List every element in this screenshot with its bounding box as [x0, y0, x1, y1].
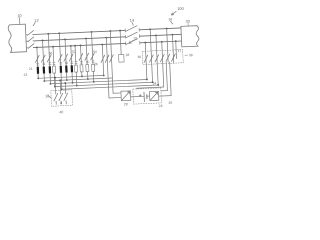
svg-text:36: 36	[137, 55, 141, 59]
fuse block outline 8	[75, 65, 78, 72]
junction dot harness feeder 6	[66, 79, 68, 81]
label 38	[189, 53, 193, 57]
motor feed wire 1	[54, 78, 57, 94]
junction dot harness feeder 3	[50, 83, 52, 85]
label 54	[93, 50, 97, 54]
auxiliary drop 176	[175, 40, 177, 42]
fuse block filled 3	[49, 66, 52, 73]
harness wire 2	[44, 78, 112, 81]
disconnect blade 12 pole 2	[26, 40, 28, 42]
label 10	[17, 13, 22, 18]
junction dot motor box	[60, 102, 62, 104]
converter feed dot 2	[105, 37, 107, 39]
stub to harness feeder 11	[92, 71, 94, 81]
motor contactor blade 3	[65, 92, 67, 94]
charger contact blade 6	[171, 54, 175, 61]
contactor blade feeder 11	[90, 53, 94, 60]
converter feed dot 1	[101, 44, 103, 46]
feeder drop wire 11	[92, 32, 93, 64]
label 12	[34, 18, 39, 23]
fuse block filled 6	[65, 66, 68, 73]
dc-dc arrow 22	[150, 92, 158, 100]
junction dot harness feeder 8	[76, 85, 78, 87]
svg-text:20: 20	[124, 102, 128, 106]
svg-text:100: 100	[177, 6, 185, 11]
transformer box 30	[181, 26, 199, 47]
motor feed dot 2	[59, 79, 61, 81]
stub to harness feeder 8	[75, 72, 78, 85]
leader line for label 16	[171, 21, 173, 24]
battery plate short	[146, 95, 148, 99]
switch 14 blade pole 3	[125, 42, 127, 45]
contactor blade feeder 2	[41, 55, 45, 62]
feeder drop wire 2	[43, 40, 44, 66]
motor feed dot 1	[54, 77, 56, 79]
label 20	[124, 102, 128, 106]
motor contactor blade 2	[60, 92, 62, 94]
feeder drop wire 10	[86, 39, 87, 65]
charger dc wire mid	[166, 62, 167, 90]
motor feed dot 3	[64, 82, 66, 84]
staircase dot 3	[157, 84, 159, 86]
utility grid box 10	[8, 24, 27, 52]
converter feed dot 3	[109, 30, 111, 32]
three-phase bus line L1	[33, 30, 125, 34]
label 21	[29, 67, 33, 71]
contactor blade feeder 6	[64, 54, 68, 61]
svg-text:21: 21	[29, 67, 33, 71]
svg-text:24: 24	[159, 104, 163, 108]
stub to harness feeder 10	[87, 72, 89, 79]
svg-text:32: 32	[133, 36, 137, 40]
dc-dc box 22	[149, 91, 158, 100]
fuse block filled 2	[43, 67, 46, 74]
stub to harness feeder 1	[37, 74, 39, 78]
label 16	[168, 17, 172, 21]
label 23	[23, 73, 27, 77]
overload dashes feeder 5	[60, 61, 62, 63]
disconnect blade 12 pole 3	[26, 47, 28, 49]
leader line for label 30	[187, 23, 189, 26]
contactor blade feeder 7	[69, 54, 73, 61]
feeder drop wire 6	[65, 39, 66, 65]
leader dash for label 38	[185, 54, 188, 56]
label 40	[59, 110, 63, 114]
charger contact blade 1	[144, 55, 148, 62]
charger feed drop 4	[161, 42, 164, 62]
converter box 20	[121, 91, 131, 101]
converter feed wire lower input	[106, 38, 109, 98]
motor feed wire 3	[64, 83, 66, 93]
charger dc wire lower	[170, 62, 171, 96]
svg-text:54: 54	[93, 50, 97, 54]
overload dashes feeder 9	[80, 60, 82, 62]
label 50	[49, 51, 53, 55]
svg-text:26: 26	[94, 62, 98, 66]
overload dashes feeder 7	[71, 61, 73, 63]
disconnect blade 12 pole 1	[26, 34, 28, 36]
junction dot feeder 5	[58, 32, 60, 34]
three-phase bus line L3	[33, 43, 125, 47]
switch 14 blade pole 1	[124, 29, 126, 32]
label 24	[159, 104, 163, 108]
charger feed drop 2	[150, 29, 151, 62]
converter feed blade 2	[105, 55, 109, 62]
charger feed dot 2	[149, 28, 151, 30]
three-phase bus line L2	[33, 37, 125, 41]
junction dot harness feeder 2	[43, 80, 45, 82]
contactor blade feeder 5	[58, 54, 62, 61]
label 30	[185, 20, 189, 24]
label 18	[45, 94, 49, 98]
junction dot feeder 6	[64, 38, 66, 40]
auxiliary feed wire 28	[119, 30, 121, 32]
stub to harness feeder 4	[53, 73, 56, 86]
svg-text:30: 30	[185, 20, 189, 24]
feeder drop wire 4	[52, 47, 55, 66]
overload dashes feeder 1	[37, 62, 39, 64]
leader line for label 12	[33, 22, 35, 25]
staircase wire 2	[151, 63, 154, 82]
charger feed drop 6	[172, 35, 173, 62]
charger feed dot 6	[171, 34, 173, 36]
feeder drop wire 7	[70, 46, 73, 65]
junction dot harness feeder 11	[93, 81, 95, 83]
overload dashes feeder 8	[75, 61, 77, 63]
label 26b	[168, 101, 172, 105]
label 17	[178, 49, 182, 53]
switch 14 blade pole 2	[124, 35, 126, 38]
feeder drop wire 9	[80, 45, 83, 64]
harness wire 4	[55, 82, 153, 86]
charger contact blade 2	[149, 55, 153, 62]
overload dashes feeder 10	[86, 60, 88, 62]
junction dot feeder 7	[70, 45, 72, 47]
svg-text:50: 50	[49, 51, 53, 55]
feeder drop wire 8	[74, 46, 77, 65]
staircase wire 3	[157, 63, 158, 85]
fuse block outline 10	[86, 65, 89, 72]
junction dot harness feeder 4	[54, 86, 56, 88]
junction dot feeder 1	[36, 46, 38, 48]
charger contact blade 4	[160, 54, 164, 61]
charger contactor dashed box 38	[142, 50, 183, 65]
harness wire 1	[38, 75, 103, 78]
junction dot feeder 11	[91, 31, 93, 33]
contactor blade feeder 9	[79, 53, 83, 60]
arrow for label 32	[129, 40, 133, 43]
charger dc wire upper	[163, 62, 164, 87]
battery system dashed box 24	[133, 88, 162, 104]
charger feed drop 1	[144, 43, 147, 63]
stub to harness feeder 5	[60, 73, 63, 89]
harness wire 3	[51, 79, 147, 83]
junction dot harness feeder 10	[87, 78, 89, 80]
label 52	[72, 50, 76, 54]
junction dot harness feeder 1	[37, 77, 39, 79]
fuse block outline 4	[53, 66, 56, 73]
junction dot feeder 3	[47, 33, 49, 35]
motor contactor blade 1	[55, 93, 57, 95]
motor contactor dashed box 18	[51, 90, 73, 106]
svg-text:23: 23	[23, 73, 27, 77]
leader line for label 14	[132, 22, 133, 25]
staircase wire 1	[145, 63, 148, 79]
junction dot feeder 8	[74, 45, 76, 47]
junction dot feeder 2	[42, 39, 44, 41]
label 26	[94, 62, 98, 66]
junction dot harness feeder 9	[81, 75, 83, 77]
fuse block outline 9	[80, 65, 83, 72]
converter feed blade 1	[101, 55, 105, 62]
battery plus sign	[139, 94, 141, 96]
feeder drop wire 5	[59, 33, 60, 65]
wire converter to battery	[131, 95, 144, 98]
charger feed drop 3	[156, 35, 157, 62]
fuse block filled 1	[37, 67, 40, 74]
converter arrow 20	[122, 92, 130, 100]
junction dot feeder 9	[80, 45, 82, 47]
label 34	[152, 81, 156, 85]
svg-text:40: 40	[59, 110, 63, 114]
contactor blade feeder 1	[35, 55, 39, 62]
staircase dot 2	[152, 81, 154, 83]
battery plate long	[143, 92, 145, 101]
motor feed wire 2	[59, 80, 62, 93]
stub to harness feeder 6	[66, 73, 68, 80]
arrow for label 100	[171, 11, 176, 15]
junction dot harness feeder 5	[61, 88, 63, 90]
feeder drop wire 1	[36, 47, 39, 66]
figure label 100	[177, 6, 185, 11]
leader line for label 18	[48, 96, 51, 98]
stub to harness feeder 9	[81, 72, 83, 76]
contactor blade feeder 3	[47, 55, 51, 62]
junction dot feeder 4	[52, 46, 54, 48]
overload dashes feeder 6	[65, 61, 67, 63]
wire battery to dcdc	[147, 95, 150, 97]
staircase dot 1	[146, 78, 148, 80]
harness wire 5	[62, 85, 158, 89]
overload dashes feeder 2	[43, 62, 45, 64]
fuse block filled 7	[71, 65, 74, 72]
overload dashes feeder 11	[92, 60, 94, 62]
fuse block outline 11	[92, 64, 95, 71]
junction dot harness feeder 7	[71, 82, 73, 84]
converter feed blade 3	[109, 55, 113, 62]
auxiliary box 28	[119, 54, 125, 62]
label 32	[133, 36, 137, 40]
stub to harness feeder 7	[71, 72, 73, 82]
overload dashes feeder 3	[49, 62, 51, 64]
stub to harness feeder 3	[49, 73, 51, 83]
overload dashes feeder 4	[53, 62, 55, 64]
converter feed wire to harness	[102, 45, 103, 76]
charger feed dot 5	[166, 28, 168, 30]
charger feed dot 1	[144, 42, 146, 44]
charger feed drop 5	[167, 29, 168, 62]
svg-text:52: 52	[72, 50, 76, 54]
svg-text:17: 17	[178, 49, 182, 53]
charger contact blade 3	[155, 55, 159, 62]
blade stub 173	[173, 62, 175, 63]
fuse block filled 5	[60, 66, 63, 73]
battery box top stub	[136, 87, 138, 90]
converter feed wire upper input	[110, 31, 113, 93]
junction dot feeder 10	[85, 38, 87, 40]
label 14	[130, 18, 135, 23]
contactor blade feeder 10	[85, 53, 89, 60]
leader line for label 10	[19, 18, 21, 25]
label 36	[137, 55, 141, 59]
feeder drop wire 3	[48, 34, 49, 66]
label 28	[126, 53, 130, 57]
svg-text:26: 26	[168, 101, 172, 105]
svg-text:38: 38	[189, 53, 193, 57]
stub to harness feeder 2	[43, 74, 45, 81]
svg-text:28: 28	[126, 53, 130, 57]
charger contact blade 5	[166, 54, 170, 61]
charger feed dot 3	[155, 34, 157, 36]
charger feed dot 4	[161, 41, 163, 43]
